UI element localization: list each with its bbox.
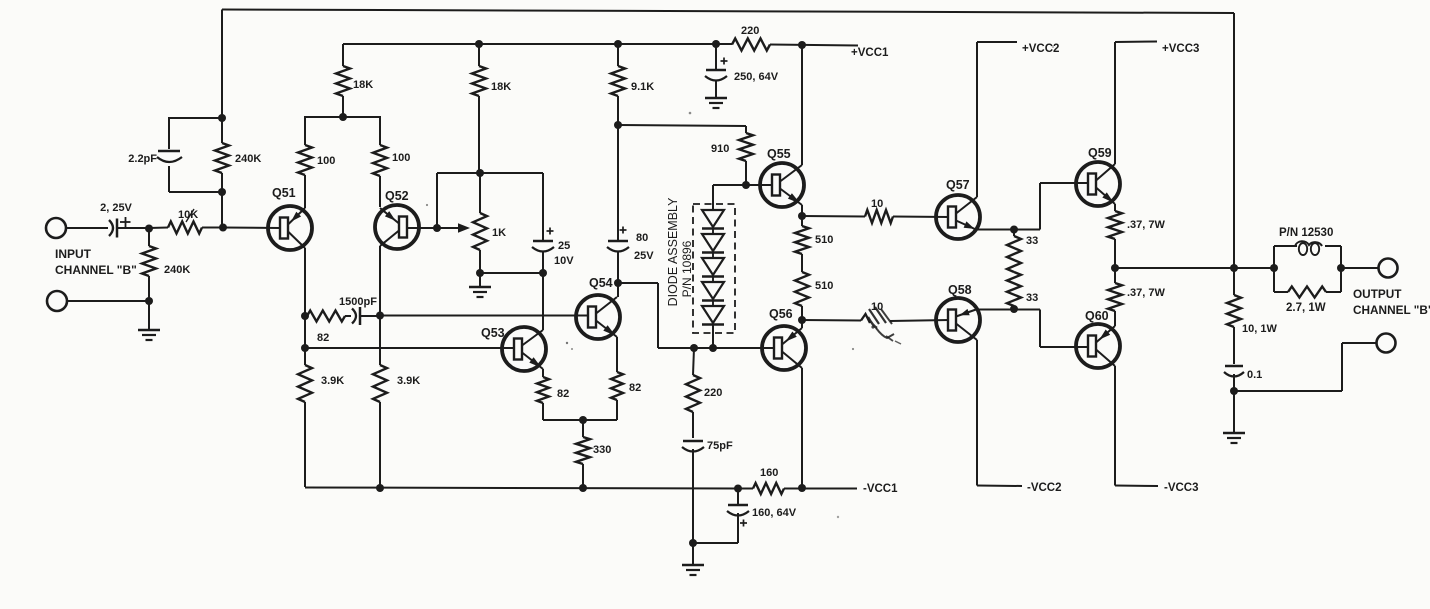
output jack top (1379, 259, 1398, 278)
svg-text:Q58: Q58 (948, 283, 972, 297)
resistor 1K (473, 173, 487, 273)
wire -VCC3 stub (1115, 485, 1158, 488)
resistor 9.1K (611, 44, 625, 125)
label Q59 (1088, 146, 1112, 160)
label 220 rail (741, 25, 759, 37)
resistor 220 rail (732, 39, 770, 51)
inductor P/N 12530 frame (1274, 246, 1341, 292)
wire 1500pF node to Q54 base (380, 315, 589, 317)
node input ground (145, 297, 153, 305)
label 75pF (707, 440, 733, 452)
svg-text:CHANNEL "B": CHANNEL "B" (55, 263, 137, 277)
label 82 Q53 (557, 388, 569, 400)
transistor Q52 (375, 205, 419, 249)
wire to ground right (1233, 391, 1235, 433)
wire 1K bottom to cap (480, 272, 543, 274)
label 80 (636, 232, 648, 244)
wire Q56 emitter (801, 320, 803, 328)
node output emitters (1111, 264, 1119, 272)
wire 160uF bottom (693, 513, 738, 543)
svg-text:25V: 25V (634, 250, 654, 262)
wire -VCC2 stub (977, 485, 1022, 488)
wire Q52 base (406, 227, 437, 229)
svg-text:250, 64V: 250, 64V (734, 71, 779, 83)
node zobel ground (1230, 387, 1238, 395)
label 1500pF (339, 296, 377, 308)
wire Q53 collector up (542, 252, 544, 330)
capacitor 0.1 (1224, 366, 1244, 377)
label 10 upper (871, 198, 883, 210)
resistor .37 lower (1108, 268, 1122, 326)
wire Q51 collector down (304, 248, 306, 365)
input jack top (46, 218, 66, 238)
capacitor 160, 64V (727, 489, 749, 527)
node 3.9K right bottom (376, 484, 384, 492)
wire Q58 collector down (976, 340, 978, 486)
wire feedback right drop (1233, 13, 1235, 268)
node 1K bottom (476, 269, 484, 277)
wire Q57 emitter h (976, 229, 1014, 231)
svg-text:DIODE ASSEMBLY: DIODE ASSEMBLY (666, 197, 680, 306)
node 18K bottom (339, 113, 347, 121)
svg-text:240K: 240K (164, 264, 190, 276)
svg-text:910: 910 (711, 143, 729, 155)
node Q56col rail (798, 484, 806, 492)
svg-text:100: 100 (317, 155, 335, 167)
label 9.1K (631, 81, 654, 93)
wire Q52 collector down (379, 246, 381, 488)
label Q60 (1085, 309, 1109, 323)
resistor 33 upper (1007, 230, 1021, 310)
capacitor 1500pF (352, 307, 360, 325)
node 220b top (690, 344, 698, 352)
capacitor 250, 64V (705, 44, 728, 81)
label +VCC1 (851, 47, 889, 59)
svg-text:Q55: Q55 (767, 147, 791, 161)
label 82 Q54 (629, 382, 641, 394)
wire jack2 to node (67, 300, 149, 302)
label 25V (634, 250, 654, 262)
input jack bottom (47, 291, 67, 311)
label 10, 1W (1242, 323, 1277, 335)
resistor 10, 1W (1227, 268, 1241, 364)
label 0.1 (1247, 369, 1262, 381)
wire Q57e to Q59 base (1014, 183, 1089, 230)
node input bias (145, 225, 153, 233)
resistor 18K right (472, 44, 486, 173)
wire Q54col to Q56base (618, 283, 714, 348)
svg-text:510: 510 (815, 234, 833, 246)
svg-text:P/N 12530: P/N 12530 (1279, 227, 1333, 239)
svg-text:82: 82 (557, 388, 569, 400)
svg-text:160, 64V: 160, 64V (752, 507, 797, 519)
wire 1K top to cap (480, 173, 543, 241)
svg-text:2.7, 1W: 2.7, 1W (1286, 302, 1326, 314)
node Q55 emitter (798, 212, 806, 220)
svg-text:+VCC3: +VCC3 (1162, 43, 1199, 55)
node 220/Q55 (798, 41, 806, 49)
node feedback/240K bottom (218, 188, 226, 196)
resistor 330 (576, 420, 590, 488)
svg-text:CHANNEL "B": CHANNEL "B" (1353, 303, 1430, 317)
resistor 10 upper (802, 210, 949, 223)
wire Q55 emitter (801, 205, 803, 216)
label 910 (711, 143, 729, 155)
svg-text:10: 10 (871, 198, 883, 210)
wire Q57 collector up (976, 42, 978, 197)
wire cap to node (118, 227, 149, 229)
label Q54 (589, 276, 613, 290)
transistor Q55 (760, 163, 804, 207)
label 25 (558, 240, 570, 252)
wire choke to jack (1341, 267, 1378, 269)
wire Q58e to Q60 base (1014, 310, 1089, 348)
label 2.2pF (128, 153, 157, 165)
svg-text:Q57: Q57 (946, 178, 970, 192)
label 2, 25V (100, 202, 132, 214)
svg-text:80: 80 (636, 232, 648, 244)
node choke left (1270, 264, 1278, 272)
inductor coil (1295, 241, 1322, 255)
svg-text:Q60: Q60 (1085, 309, 1109, 323)
wire Q59 collector up (1114, 42, 1116, 164)
svg-text:510: 510 (815, 280, 833, 292)
diode assembly chain D1-D5 (702, 210, 724, 325)
label 10K (178, 209, 198, 221)
label 250, 64V (734, 71, 779, 83)
label 160 rail (760, 467, 778, 479)
label 3.9K right (397, 375, 420, 387)
svg-text:25: 25 (558, 240, 570, 252)
label CHANNEL B out (1353, 303, 1430, 317)
label CHANNEL B in (55, 263, 137, 277)
svg-text:82: 82 (317, 332, 329, 344)
ground right (1223, 433, 1245, 443)
capacitor 75pF (682, 441, 704, 452)
label 240K feedback (235, 153, 261, 165)
resistor 82 Q53 (537, 369, 549, 420)
node 160uF top (734, 485, 742, 493)
svg-text:-VCC2: -VCC2 (1027, 482, 1062, 494)
wire 75pF down (692, 449, 694, 543)
transistor Q57 (936, 195, 980, 239)
label 160, 64V (752, 507, 797, 519)
svg-text:Q54: Q54 (589, 276, 613, 290)
capacitor 2.2pF (157, 151, 182, 162)
node Q51col/1500pF (301, 312, 309, 320)
svg-text:2.2pF: 2.2pF (128, 153, 157, 165)
node Q51col/Q53base (301, 344, 309, 352)
capacitor 2, 25V (109, 219, 117, 238)
node diode bottom (709, 344, 717, 352)
wire output line (1115, 267, 1234, 269)
wire 1K bracket (437, 173, 480, 228)
node Q51 base (219, 224, 227, 232)
svg-text:Q59: Q59 (1088, 146, 1112, 160)
node 330 bottom (579, 484, 587, 492)
wire emitter bar Q51Q52 (304, 116, 381, 118)
node 330 top (579, 416, 587, 424)
resistor 220 lower (686, 348, 700, 438)
svg-text:OUTPUT: OUTPUT (1353, 287, 1402, 301)
resistor 240K feedback (215, 118, 229, 192)
label 33 lower (1026, 292, 1038, 304)
wire feedback to input node (221, 192, 223, 227)
wire 80uF to Q54 (617, 252, 619, 297)
svg-text:1500pF: 1500pF (339, 296, 377, 308)
resistor 10 lower smudged (802, 314, 949, 323)
node choke right (1337, 264, 1345, 272)
label Q53 (481, 326, 505, 340)
wire Q58 emitter h (976, 309, 1014, 311)
resistor 82 Q54 (611, 337, 623, 420)
resistor 910 (739, 133, 753, 185)
wire node to Q51 base (223, 227, 280, 230)
svg-text:18K: 18K (353, 79, 373, 91)
wire cap to node (542, 252, 544, 273)
svg-text:3.9K: 3.9K (397, 375, 420, 387)
capacitor 25, 10V (532, 228, 554, 252)
wire +VCC1 rail (343, 44, 858, 46)
node 9.1K bottom (614, 121, 622, 129)
wire feedback top (222, 10, 1234, 14)
resistor 240K input (142, 229, 156, 302)
svg-text:100: 100 (392, 152, 410, 164)
resistor 100 left (298, 117, 312, 208)
label 220 lower (704, 387, 722, 399)
resistor 82 series (305, 311, 351, 322)
wire 9.1K to 80uF (617, 125, 619, 241)
artifact 10K slash (186, 209, 194, 222)
label Q55 (767, 147, 791, 161)
wire output to choke (1234, 267, 1274, 269)
ground input (138, 330, 160, 340)
transistor Q54 (576, 295, 620, 339)
capacitor 80, 25V (607, 227, 629, 252)
svg-text:33: 33 (1026, 235, 1038, 247)
svg-text:P/N 10896: P/N 10896 (680, 240, 694, 297)
wire 1500pF to node (361, 315, 380, 317)
resistor .37 upper (1108, 204, 1122, 268)
node feedback/240K top (218, 114, 226, 122)
svg-text:75pF: 75pF (707, 440, 733, 452)
label 3.9K left (321, 375, 344, 387)
node 18K2 top (475, 40, 483, 48)
svg-text:240K: 240K (235, 153, 261, 165)
label 2.7, 1W (1286, 302, 1326, 314)
wire Q55 base (746, 184, 773, 186)
label Q51 (272, 186, 296, 200)
label 10 lower (871, 301, 883, 313)
label 330 (593, 444, 611, 456)
label 10V (554, 255, 574, 267)
node 1K top (476, 169, 484, 177)
svg-text:1K: 1K (492, 227, 506, 239)
label .37 7W upper (1127, 219, 1166, 231)
svg-text:10, 1W: 10, 1W (1242, 323, 1277, 335)
ground 1K (469, 273, 491, 297)
node 9.1K top (614, 40, 622, 48)
svg-text:33: 33 (1026, 292, 1038, 304)
node Q55 base (742, 181, 750, 189)
label P/N 10896 (680, 240, 694, 297)
svg-text:Q52: Q52 (385, 189, 409, 203)
wire Q60 collector down (1114, 366, 1116, 486)
pot wiper arrow (437, 223, 470, 233)
svg-text:+VCC2: +VCC2 (1022, 43, 1059, 55)
wire Q53 base (305, 347, 513, 349)
diode assembly dashed box (693, 204, 735, 333)
wire diodes to node (712, 325, 714, 349)
node 250uF top (712, 40, 720, 48)
wire jack2 return (1234, 343, 1376, 391)
transistor Q59 (1076, 162, 1120, 206)
svg-text:INPUT: INPUT (55, 247, 92, 261)
label P/N 12530 (1279, 227, 1333, 239)
label 1K (492, 227, 506, 239)
resistor 3.9K right (373, 365, 387, 402)
svg-text:9.1K: 9.1K (631, 81, 654, 93)
transistor Q56 (762, 326, 806, 370)
label Q57 (946, 178, 970, 192)
wire +VCC2 stub (977, 41, 1017, 43)
node Q54 collector (614, 279, 622, 287)
transistor Q58 (936, 298, 980, 342)
node 75pF/160uF (689, 539, 697, 547)
label 18K left (353, 79, 373, 91)
node 25uF bottom (539, 269, 547, 277)
svg-text:3.9K: 3.9K (321, 375, 344, 387)
wire node to ground (148, 301, 150, 330)
svg-text:220: 220 (704, 387, 722, 399)
resistor 3.9K left (298, 365, 312, 402)
label 33 upper (1026, 235, 1038, 247)
svg-text:Q56: Q56 (769, 307, 793, 321)
svg-text:18K: 18K (491, 81, 511, 93)
wire +VCC3 stub (1115, 41, 1157, 44)
resistor 160 rail (738, 483, 784, 494)
resistor 510 lower (795, 272, 809, 320)
svg-text:.37, 7W: .37, 7W (1127, 287, 1166, 299)
label INPUT (55, 247, 92, 261)
label Q56 (769, 307, 793, 321)
svg-text:+VCC1: +VCC1 (851, 47, 889, 59)
wire -VCC1 rail (305, 402, 857, 489)
label 18K right (491, 81, 511, 93)
svg-text:Q53: Q53 (481, 326, 505, 340)
label 510 upper (815, 234, 833, 246)
transistor Q60 (1076, 324, 1120, 368)
node 33 bottom (1010, 305, 1018, 313)
label -VCC3 (1164, 482, 1199, 494)
label +VCC2 (1022, 43, 1059, 55)
plus 2,25V (120, 217, 131, 227)
resistor 100 right (373, 117, 387, 207)
transistor Q51 (268, 206, 312, 250)
ground 250uF (705, 98, 727, 108)
label 100 right (392, 152, 410, 164)
label Q52 (385, 189, 409, 203)
wire emitter join bar (543, 419, 617, 421)
wire Q56 base (714, 347, 773, 349)
wire 250uF to ground (715, 81, 717, 98)
label 82 series (317, 332, 329, 344)
resistor 10K (149, 222, 223, 234)
wire feedback left drop (221, 10, 223, 119)
label 510 lower (815, 280, 833, 292)
svg-text:2, 25V: 2, 25V (100, 202, 132, 214)
label DIODE ASSEMBLY (666, 197, 680, 306)
svg-text:160: 160 (760, 467, 778, 479)
label +VCC3 (1162, 43, 1199, 55)
label -VCC2 (1027, 482, 1062, 494)
svg-text:82: 82 (629, 382, 641, 394)
artifact speckles (426, 46, 1054, 518)
svg-text:0.1: 0.1 (1247, 369, 1262, 381)
ground center (682, 565, 704, 575)
artifact smudge strokes (852, 307, 901, 350)
label -VCC1 (863, 483, 898, 495)
svg-text:330: 330 (593, 444, 611, 456)
transistor Q53 (502, 327, 546, 371)
svg-text:-VCC3: -VCC3 (1164, 482, 1199, 494)
wire Q56 collector down (801, 368, 803, 488)
wire 910 to diodes (713, 185, 746, 210)
wire Q55 collector up (801, 45, 803, 165)
resistor 18K left (336, 44, 350, 117)
node Q52 base (433, 224, 441, 232)
label 100 left (317, 155, 335, 167)
label .37 7W lower (1127, 287, 1166, 299)
wire input to cap (66, 227, 108, 229)
svg-text:-VCC1: -VCC1 (863, 483, 898, 495)
resistor 2.7, 1W (1288, 287, 1326, 298)
resistor 510 upper (795, 216, 809, 272)
svg-text:10V: 10V (554, 255, 574, 267)
label 240K input (164, 264, 190, 276)
node 33 top (1010, 226, 1018, 234)
svg-text:.37, 7W: .37, 7W (1127, 219, 1166, 231)
label Q58 (948, 283, 972, 297)
capacitor 2.2pF branch wires (169, 117, 222, 192)
svg-text:220: 220 (741, 25, 759, 37)
wire to ground center (692, 543, 694, 565)
label OUTPUT (1353, 287, 1402, 301)
node Q52col/1500pF (376, 312, 384, 320)
svg-text:Q51: Q51 (272, 186, 296, 200)
node output/feedback (1230, 264, 1238, 272)
output jack bottom (1377, 334, 1396, 353)
wire 0.1 to node (1233, 374, 1235, 391)
wire 910 top (618, 125, 746, 133)
node Q56 emitter (798, 316, 806, 324)
